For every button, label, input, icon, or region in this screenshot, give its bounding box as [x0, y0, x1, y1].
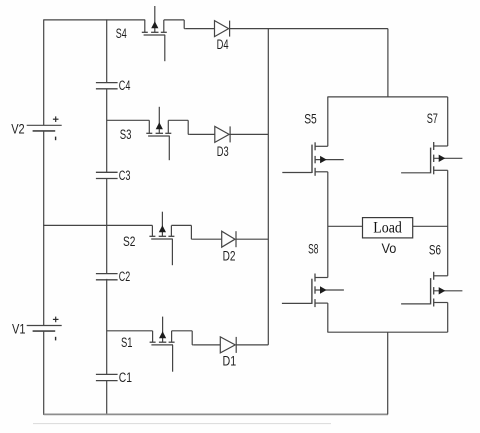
wire capacitor bus segment C2 to C1 (node S1 drain) — [106, 279, 108, 375]
svg-text:C4: C4 — [119, 78, 131, 93]
svg-text:V2: V2 — [11, 122, 25, 137]
svg-text:C2: C2 — [119, 269, 130, 284]
svg-text:D1: D1 — [223, 354, 237, 369]
wire feed from D4 wire down to H-bridge top rail — [387, 29, 389, 97]
wire S1 source to diode — [172, 331, 194, 345]
transistor S2 (MOSFET) — [149, 212, 174, 266]
svg-text:D3: D3 — [217, 144, 229, 159]
wire mid rail (left bus node to S2 drain) — [43, 224, 152, 226]
label S6 — [429, 242, 441, 257]
battery V1 plates — [27, 326, 62, 332]
wire top rail — [44, 19, 146, 21]
capacitor C4 plates — [96, 83, 118, 89]
wire right leg bottom (S6 source to bottom rail) — [447, 303, 449, 333]
label C4 — [119, 78, 131, 93]
wire S3 drain from capacitor bus — [107, 119, 150, 121]
wire load right — [413, 225, 448, 227]
transistor S8 (MOSFET) — [282, 274, 344, 308]
label C1 — [119, 370, 132, 385]
wire left leg bottom (S8 source to bottom rail) — [327, 303, 329, 332]
transistor S5 (MOSFET) — [282, 142, 343, 176]
transistor S7 (MOSFET) — [401, 142, 462, 174]
wire left bus lower (V1 minus to bottom rail) — [43, 331, 45, 415]
V2 minus sign — [55, 137, 57, 141]
transistor S3 (MOSFET) — [146, 107, 171, 160]
wire capacitor bus segment bottom — [106, 380, 108, 415]
svg-text:S7: S7 — [427, 111, 438, 126]
label S3 — [120, 127, 132, 142]
svg-text:S4: S4 — [116, 26, 127, 41]
label D4 — [217, 37, 229, 52]
wire right leg top (rail to S7 drain) — [447, 97, 449, 146]
load box — [363, 218, 413, 238]
wire left bus middle (V2 minus to V1 plus) — [43, 131, 45, 326]
wire load left — [328, 225, 363, 227]
label S4 — [116, 26, 127, 41]
svg-text:C3: C3 — [119, 168, 131, 183]
svg-text:S3: S3 — [120, 127, 132, 142]
wire faint scan line — [33, 423, 331, 425]
capacitor C3 plates — [96, 172, 118, 178]
V1 minus sign — [55, 337, 57, 341]
wire S3 source to diode — [168, 120, 189, 134]
svg-text:S1: S1 — [121, 335, 133, 350]
label S8 — [308, 241, 318, 256]
label S5 — [304, 111, 317, 126]
diode D4 — [185, 21, 388, 37]
wire capacitor bus segment C4 to C3 (node S3 drain) — [106, 89, 108, 173]
svg-text:S5: S5 — [304, 111, 317, 126]
label V1 — [12, 322, 26, 337]
svg-text:Vo: Vo — [382, 241, 397, 256]
label V2 — [11, 122, 25, 137]
wire diode cathode bus — [267, 29, 269, 345]
label Vo (output voltage) — [382, 241, 397, 256]
capacitor C2 plates — [96, 274, 118, 280]
svg-text:D4: D4 — [217, 37, 229, 52]
wire left leg top (rail to S5 drain) — [327, 97, 329, 146]
label D3 — [217, 144, 229, 159]
capacitor C1 plates — [96, 374, 118, 380]
V1 plus sign — [53, 317, 59, 323]
svg-text:V1: V1 — [12, 322, 26, 337]
wire capacitor bus segment C3 to C2 (node mid rail) — [106, 179, 108, 274]
wire capacitor bus segment top — [106, 19, 108, 82]
svg-text:S2: S2 — [123, 234, 135, 249]
wire right leg middle (S7 source to S6 drain) — [447, 170, 449, 275]
wire left bus upper (top rail to V2 plus) — [43, 19, 45, 125]
svg-text:D2: D2 — [223, 249, 236, 264]
label S7 — [427, 111, 438, 126]
wire S2 source to diode — [171, 225, 192, 239]
svg-text:Load: Load — [373, 220, 402, 237]
label C3 — [119, 168, 131, 183]
wire left leg middle (S5 source to S8 drain) — [327, 172, 329, 278]
wire bottom rail — [44, 413, 388, 415]
diode D3 — [189, 126, 268, 142]
diode D1 — [193, 337, 268, 353]
wire S4 source to diode — [164, 20, 185, 29]
svg-text:C1: C1 — [119, 370, 132, 385]
V2 plus sign — [53, 116, 59, 122]
diode D2 — [192, 231, 268, 247]
wire H-bridge top rail — [327, 96, 447, 98]
label D2 — [223, 249, 236, 264]
wire S1 drain from capacitor bus — [107, 330, 153, 332]
label S2 — [123, 234, 135, 249]
transistor S6 (MOSFET) — [401, 272, 462, 307]
svg-text:S6: S6 — [429, 242, 441, 257]
transistor S4 (MOSFET) — [142, 6, 167, 61]
wire H-bridge bottom feed to main bottom rail — [387, 332, 389, 414]
svg-text:S8: S8 — [308, 241, 318, 256]
battery V2 plates — [27, 125, 62, 131]
label S1 — [121, 335, 133, 350]
label C2 — [119, 269, 130, 284]
label D1 — [223, 354, 237, 369]
wire H-bridge bottom rail — [327, 331, 447, 333]
transistor S1 (MOSFET) — [150, 317, 175, 372]
